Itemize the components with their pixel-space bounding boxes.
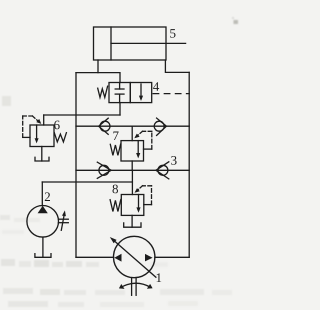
paper background: [0, 0, 242, 310]
relief valve 6 tank: [41, 147, 43, 162]
label 1: [157, 273, 162, 282]
label 4: [153, 82, 159, 91]
sequence valve 7 arrow: [137, 141, 139, 156]
left rail: [75, 73, 77, 258]
pump 2 triangle: [38, 206, 48, 214]
motor shaft: [131, 278, 133, 296]
sequence valve 7 spring W: [110, 144, 120, 155]
relief valve 6 arrowhead: [35, 138, 39, 143]
wire sequence valve 8 top port: [131, 170, 133, 194]
valve 4 box1: [109, 83, 130, 103]
label 7: [113, 132, 118, 141]
sequence valve 8 arrow: [138, 195, 140, 211]
right rail: [188, 72, 190, 257]
wire bottom to motor left: [76, 256, 114, 258]
relief valve 6 body: [30, 125, 54, 147]
sequence valve 7 body: [121, 141, 144, 161]
wire sequence valve 7 bottom port: [131, 161, 133, 170]
sequence valve 8 arrowhead: [136, 207, 140, 212]
sequence valve 8 pilot dashed: [144, 204, 152, 206]
sequence valve 8 body: [121, 195, 144, 216]
wire motor right to right rail: [155, 256, 189, 258]
sequence valve 8 spring W: [110, 200, 121, 212]
motor 1 left triangle: [114, 254, 121, 262]
pump tank: [42, 237, 44, 257]
wire relief valve 6 inlet: [43, 115, 45, 125]
motor rotation arrowhead left: [119, 284, 125, 289]
label 2: [45, 192, 50, 201]
valve 4 pilot dashed: [152, 93, 190, 95]
sequence valve 7 arrowhead: [136, 153, 140, 158]
sequence valve 7 pilot dashed: [144, 148, 152, 150]
motor 1 circle: [114, 236, 155, 277]
pump compensator arrow: [61, 215, 64, 231]
valve 4 box2 arrowhead: [139, 96, 143, 101]
wire row1: [76, 125, 189, 127]
relief valve 6 arrow: [36, 125, 38, 141]
sequence valve 8 pilot arrowhead: [135, 188, 140, 193]
wire cylinder left port: [97, 60, 99, 73]
label 8: [113, 185, 119, 194]
valve 4 spring W: [98, 86, 108, 97]
check valve CV1 (row 1 left): [100, 121, 110, 131]
cylinder rod: [111, 42, 186, 44]
motor variable arrowhead: [110, 237, 117, 243]
sequence valve 7 pilot arrowhead: [134, 134, 139, 139]
wire cylinder right port to right rail: [165, 60, 189, 72]
pump compensator lines: [59, 218, 69, 220]
sequence valve 8 tank: [131, 215, 133, 227]
wire row2: [76, 169, 189, 171]
valve 4 box2 arrow: [140, 84, 142, 99]
check valve CV3 (row 2 left): [99, 165, 109, 175]
relief valve 6 pilot dashed: [23, 136, 30, 138]
check valve CV2 (row 1 right): [154, 121, 164, 131]
check valve 3 (row 2 right): [158, 165, 168, 175]
motor variable arrow diagonal: [115, 241, 156, 277]
valve 4 box2: [130, 83, 151, 103]
motor rotation arrowhead right: [147, 284, 153, 289]
label 5: [170, 29, 175, 38]
cylinder 5 body: [94, 27, 167, 60]
filled parts: [35, 96, 153, 289]
pump 2 circle: [27, 206, 59, 238]
label 3: [171, 156, 176, 165]
motor 1 right triangle: [145, 254, 153, 262]
wire cylinder feed top: [76, 73, 120, 83]
wire pump pressure line: [42, 181, 132, 183]
wire pump outlet: [41, 182, 43, 206]
pump compensator arrowhead: [62, 210, 66, 216]
cylinder piston: [110, 27, 112, 60]
motor rotation arc: [121, 283, 152, 288]
relief valve 6 spring W: [54, 133, 66, 142]
wire valve 4 bottom port: [119, 103, 121, 115]
wire line y115: [44, 114, 120, 116]
relief valve 6 pilot arrowhead: [36, 119, 41, 124]
wire sequence valve 7 top port: [131, 126, 133, 140]
label 6: [54, 121, 60, 130]
valve 4 box1 blocked symbol: [119, 83, 121, 90]
